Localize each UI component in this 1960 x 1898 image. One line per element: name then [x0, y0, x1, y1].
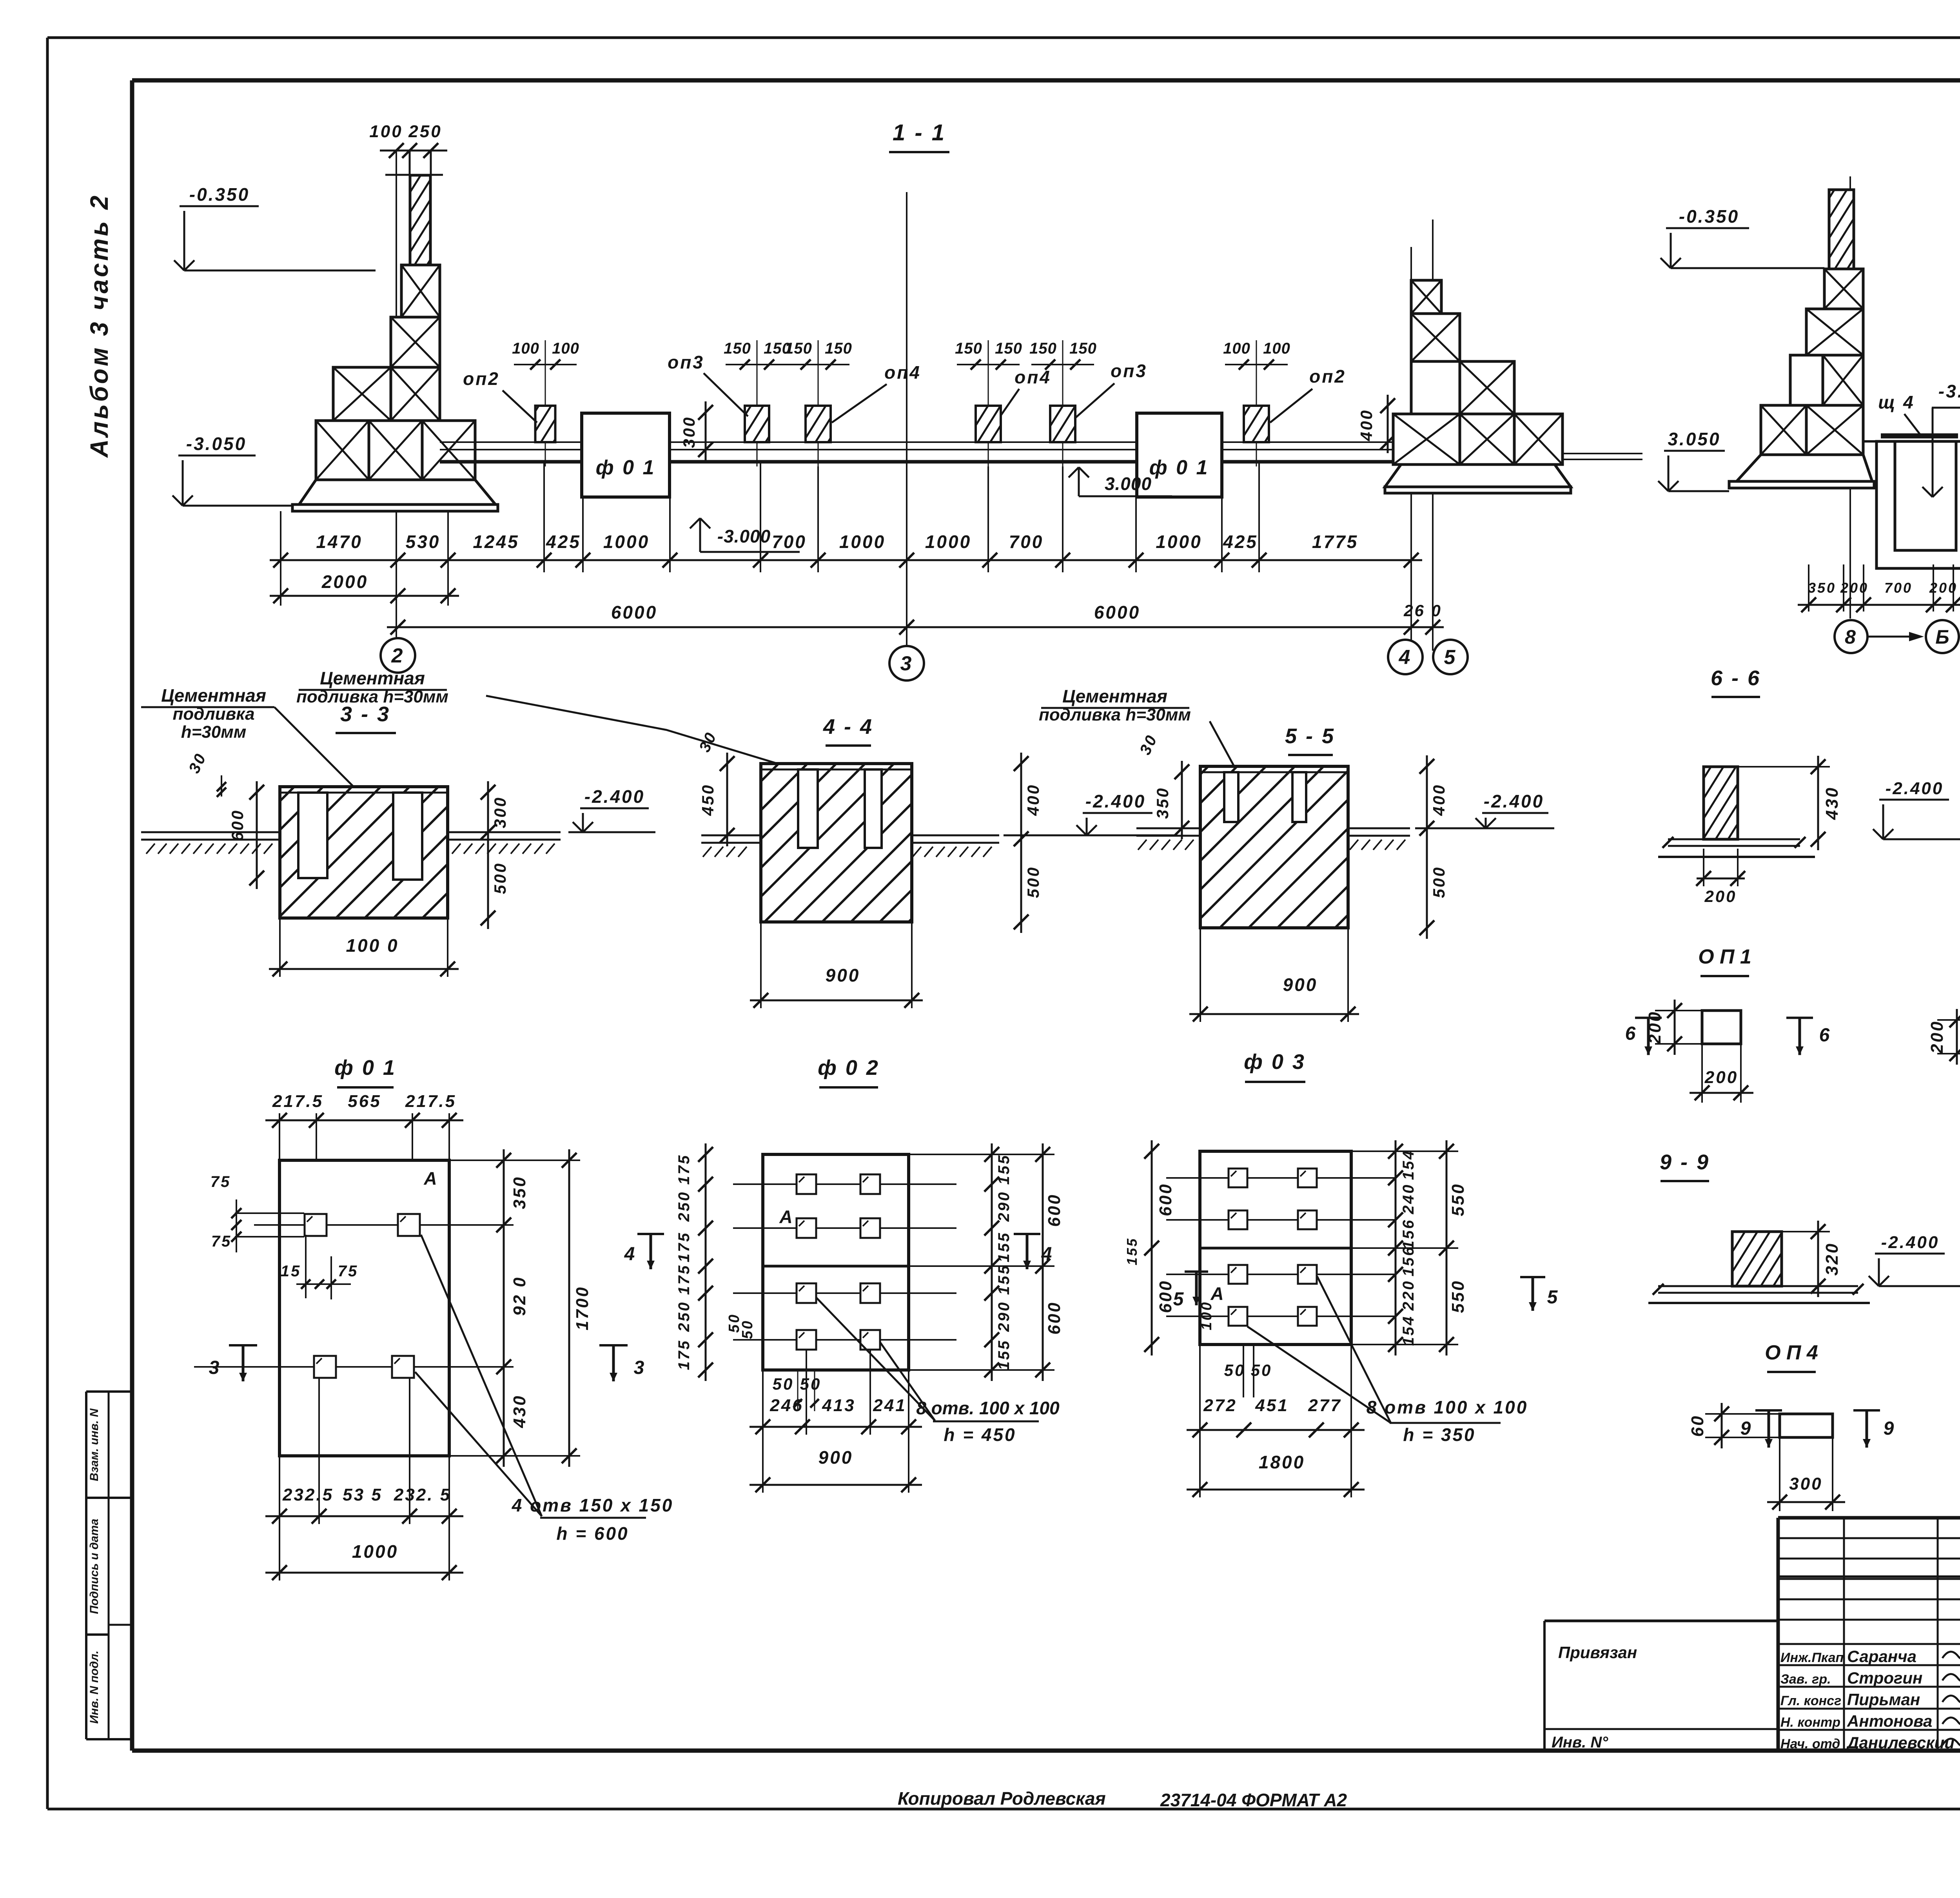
svg-text:530: 530: [406, 532, 441, 552]
svg-text:4: 4: [624, 1244, 637, 1265]
svg-text:600: 600: [228, 809, 247, 841]
svg-text:413: 413: [822, 1396, 855, 1415]
svg-text:ф 0 1: ф 0 1: [1149, 456, 1209, 479]
svg-text:156: 156: [1400, 1246, 1417, 1277]
svg-text:100: 100: [552, 340, 579, 357]
svg-text:320: 320: [1822, 1242, 1842, 1276]
svg-text:241: 241: [873, 1396, 906, 1415]
svg-text:175: 175: [675, 1154, 693, 1185]
svg-text:300: 300: [491, 796, 509, 828]
svg-text:217.5: 217.5: [405, 1092, 456, 1111]
svg-text:75: 75: [338, 1263, 359, 1280]
svg-text:26 0: 26 0: [1403, 601, 1442, 620]
svg-text:-3.150: -3.150: [1938, 381, 1960, 401]
svg-text:60: 60: [1688, 1415, 1707, 1437]
svg-text:272: 272: [1203, 1396, 1237, 1415]
svg-text:217.5: 217.5: [272, 1092, 323, 1111]
svg-text:8 отв 100 x 100: 8 отв 100 x 100: [1367, 1397, 1528, 1417]
svg-text:1775: 1775: [1312, 532, 1358, 552]
svg-text:2000: 2000: [321, 572, 368, 592]
svg-text:150: 150: [1029, 340, 1057, 357]
svg-text:451: 451: [1255, 1396, 1289, 1415]
svg-text:-0.350: -0.350: [189, 184, 250, 205]
svg-text:200: 200: [1704, 887, 1737, 905]
svg-text:75: 75: [211, 1233, 232, 1250]
svg-text:290: 290: [995, 1301, 1013, 1332]
svg-text:оп2: оп2: [463, 368, 500, 389]
svg-text:Копировал Родлевская: Копировал Родлевская: [898, 1788, 1106, 1809]
svg-text:3: 3: [634, 1357, 646, 1378]
svg-text:500: 500: [1430, 866, 1448, 898]
svg-text:ф 0 1: ф 0 1: [334, 1056, 396, 1080]
svg-text:ф 0 3: ф 0 3: [1244, 1050, 1306, 1074]
svg-text:Б: Б: [1935, 626, 1949, 648]
svg-text:Зав. гр.: Зав. гр.: [1780, 1672, 1831, 1687]
svg-text:1000: 1000: [352, 1541, 398, 1562]
svg-text:Альбом 3 часть 2: Альбом 3 часть 2: [85, 193, 113, 458]
svg-text:155: 155: [995, 1154, 1013, 1185]
svg-text:50: 50: [800, 1375, 822, 1393]
svg-text:6 - 6: 6 - 6: [1711, 666, 1761, 690]
svg-text:1000: 1000: [1156, 532, 1202, 552]
svg-text:О П 1: О П 1: [1698, 945, 1751, 968]
svg-text:350: 350: [1153, 787, 1172, 819]
svg-text:1800: 1800: [1259, 1452, 1305, 1472]
svg-text:оп2: оп2: [1309, 366, 1346, 386]
svg-text:А: А: [423, 1168, 437, 1189]
svg-text:150: 150: [995, 340, 1022, 357]
svg-text:оп3: оп3: [1111, 361, 1147, 381]
svg-text:700: 700: [772, 532, 807, 552]
svg-text:-3.000: -3.000: [717, 526, 771, 546]
svg-text:53 5: 53 5: [343, 1485, 383, 1504]
svg-text:-0.350: -0.350: [1679, 206, 1739, 227]
svg-text:550: 550: [1448, 1183, 1468, 1216]
svg-text:425: 425: [1223, 532, 1258, 552]
svg-text:500: 500: [491, 862, 509, 894]
svg-text:Цементная: Цементная: [1062, 686, 1167, 706]
svg-text:подливка: подливка: [172, 704, 254, 724]
svg-text:Нач. отд: Нач. отд: [1780, 1737, 1840, 1751]
svg-text:150: 150: [955, 340, 982, 357]
svg-text:75: 75: [211, 1173, 231, 1190]
svg-text:155: 155: [995, 1232, 1013, 1263]
svg-text:100: 100: [1223, 340, 1250, 357]
svg-text:ф 0 2: ф 0 2: [818, 1056, 880, 1080]
svg-text:4 - 4: 4 - 4: [823, 715, 873, 739]
svg-text:5: 5: [1173, 1289, 1185, 1310]
svg-text:-2.400: -2.400: [1881, 1233, 1940, 1252]
svg-text:8: 8: [1845, 626, 1857, 648]
svg-text:оп4: оп4: [1014, 367, 1051, 387]
svg-text:5: 5: [1444, 646, 1457, 669]
svg-text:А: А: [1210, 1283, 1223, 1304]
svg-text:175: 175: [675, 1339, 693, 1370]
svg-text:246: 246: [769, 1396, 803, 1415]
svg-text:О П 4: О П 4: [1765, 1341, 1818, 1364]
svg-text:Антонова: Антонова: [1847, 1712, 1932, 1730]
svg-text:щ 4: щ 4: [1878, 392, 1915, 412]
svg-text:6: 6: [1819, 1025, 1831, 1046]
svg-text:Инв. N°: Инв. N°: [1552, 1734, 1608, 1751]
svg-text:3: 3: [209, 1357, 221, 1378]
svg-text:-2.400: -2.400: [584, 786, 645, 807]
svg-text:175: 175: [675, 1232, 693, 1263]
svg-text:232.5: 232.5: [282, 1485, 334, 1504]
svg-text:240: 240: [1400, 1183, 1417, 1215]
svg-text:50: 50: [773, 1375, 794, 1393]
svg-text:Инв. N подл.: Инв. N подл.: [88, 1651, 101, 1724]
svg-text:100: 100: [369, 122, 403, 141]
svg-text:3.050: 3.050: [1668, 429, 1720, 449]
svg-text:2: 2: [391, 644, 405, 667]
svg-text:подливка h=30мм: подливка h=30мм: [1039, 705, 1191, 724]
svg-text:600: 600: [1156, 1183, 1175, 1216]
svg-text:277: 277: [1308, 1396, 1341, 1415]
svg-text:250: 250: [675, 1191, 693, 1222]
svg-text:1000: 1000: [925, 532, 971, 552]
svg-text:150: 150: [785, 340, 812, 357]
svg-text:подливка h=30мм: подливка h=30мм: [296, 687, 448, 706]
svg-text:1700: 1700: [573, 1286, 592, 1330]
svg-text:15: 15: [281, 1263, 301, 1280]
svg-text:150: 150: [1069, 340, 1097, 357]
svg-text:290: 290: [995, 1191, 1013, 1222]
svg-text:6000: 6000: [1094, 602, 1140, 622]
svg-text:400: 400: [1024, 784, 1042, 816]
svg-text:23714-04 ФОРМАТ А2: 23714-04 ФОРМАТ А2: [1160, 1790, 1347, 1810]
svg-text:-2.400: -2.400: [1484, 791, 1544, 811]
svg-text:154: 154: [1400, 1315, 1417, 1346]
svg-text:150: 150: [724, 340, 751, 357]
svg-text:154: 154: [1400, 1149, 1417, 1180]
svg-text:700: 700: [1009, 532, 1044, 552]
svg-text:Пирьман: Пирьман: [1847, 1690, 1920, 1709]
svg-text:565: 565: [348, 1092, 381, 1111]
svg-text:Н. контр: Н. контр: [1780, 1715, 1840, 1730]
svg-text:430: 430: [1822, 786, 1842, 820]
svg-text:4: 4: [1399, 646, 1412, 669]
svg-text:450: 450: [699, 784, 717, 816]
svg-text:h = 600: h = 600: [556, 1523, 629, 1544]
svg-text:500: 500: [1024, 866, 1042, 898]
svg-text:h = 350: h = 350: [1403, 1424, 1475, 1445]
svg-text:Подпись и дата: Подпись и дата: [88, 1519, 101, 1614]
svg-text:ф 0 1: ф 0 1: [596, 456, 656, 479]
svg-text:9 - 9: 9 - 9: [1660, 1150, 1710, 1174]
svg-text:Саранча: Саранча: [1847, 1647, 1916, 1666]
svg-text:-3.050: -3.050: [186, 434, 247, 454]
svg-text:200: 200: [1704, 1068, 1738, 1087]
svg-text:100: 100: [512, 340, 539, 357]
svg-text:оп3: оп3: [668, 352, 704, 372]
svg-text:700: 700: [1884, 580, 1913, 596]
svg-text:Привязан: Привязан: [1558, 1643, 1637, 1662]
svg-text:100 0: 100 0: [346, 935, 399, 956]
svg-text:155: 155: [995, 1264, 1013, 1295]
svg-text:175: 175: [675, 1264, 693, 1295]
svg-text:430: 430: [510, 1394, 529, 1428]
svg-text:Гл. консг: Гл. консг: [1780, 1693, 1841, 1708]
svg-text:900: 900: [826, 965, 860, 985]
svg-text:1000: 1000: [603, 532, 650, 552]
svg-text:h = 450: h = 450: [944, 1424, 1016, 1445]
svg-text:600: 600: [1156, 1279, 1175, 1313]
svg-text:220: 220: [1400, 1280, 1417, 1311]
svg-text:900: 900: [1283, 974, 1318, 995]
svg-text:оп4: оп4: [884, 362, 921, 383]
svg-text:Взам. инв. N: Взам. инв. N: [88, 1408, 101, 1481]
svg-text:1000: 1000: [839, 532, 886, 552]
svg-text:-2.400: -2.400: [1886, 779, 1944, 798]
svg-text:425: 425: [546, 532, 581, 552]
svg-text:100: 100: [1198, 1301, 1215, 1330]
svg-text:400: 400: [1430, 784, 1448, 816]
svg-text:155: 155: [995, 1339, 1013, 1370]
svg-text:300: 300: [1789, 1474, 1822, 1493]
svg-text:156: 156: [1400, 1219, 1417, 1250]
svg-text:А: А: [779, 1207, 792, 1227]
svg-text:232. 5: 232. 5: [394, 1485, 451, 1504]
svg-text:150: 150: [825, 340, 852, 357]
svg-text:1245: 1245: [473, 532, 519, 552]
svg-text:155: 155: [1124, 1237, 1140, 1265]
svg-text:100: 100: [1263, 340, 1290, 357]
svg-text:Цементная: Цементная: [320, 668, 425, 688]
svg-text:50: 50: [1224, 1361, 1246, 1379]
svg-text:6000: 6000: [611, 602, 657, 622]
svg-text:600: 600: [1045, 1193, 1064, 1227]
svg-text:3: 3: [900, 652, 913, 675]
svg-text:Цементная: Цементная: [161, 685, 266, 706]
svg-text:300: 300: [680, 416, 698, 448]
svg-text:200: 200: [1927, 1020, 1947, 1054]
svg-text:50: 50: [739, 1319, 756, 1339]
svg-text:400: 400: [1357, 409, 1376, 441]
svg-text:550: 550: [1448, 1279, 1468, 1313]
svg-text:9: 9: [1884, 1418, 1896, 1439]
svg-text:Данилевскии: Данилевскии: [1846, 1733, 1955, 1752]
svg-text:4 отв 150 x 150: 4 отв 150 x 150: [512, 1495, 674, 1515]
svg-text:900: 900: [818, 1447, 853, 1468]
svg-text:4: 4: [1041, 1244, 1054, 1265]
svg-text:3.000: 3.000: [1105, 474, 1152, 494]
svg-text:-2.400: -2.400: [1085, 791, 1146, 811]
svg-text:92 0: 92 0: [510, 1276, 529, 1316]
svg-text:Инж.Пкап: Инж.Пкап: [1780, 1650, 1844, 1665]
svg-text:1 - 1: 1 - 1: [893, 120, 946, 145]
svg-text:1470: 1470: [316, 532, 362, 552]
svg-text:Строгин: Строгин: [1847, 1669, 1922, 1687]
svg-text:350: 350: [1808, 580, 1836, 596]
svg-text:h=30мм: h=30мм: [181, 722, 247, 742]
svg-text:9: 9: [1740, 1418, 1753, 1439]
svg-text:6: 6: [1625, 1023, 1637, 1044]
svg-text:5: 5: [1547, 1287, 1559, 1308]
svg-text:600: 600: [1045, 1301, 1064, 1334]
svg-text:5 - 5: 5 - 5: [1285, 724, 1335, 748]
svg-text:350: 350: [510, 1176, 529, 1209]
svg-text:250: 250: [675, 1301, 693, 1332]
svg-text:8 отв. 100 x 100: 8 отв. 100 x 100: [916, 1398, 1060, 1418]
svg-text:250: 250: [408, 122, 442, 141]
